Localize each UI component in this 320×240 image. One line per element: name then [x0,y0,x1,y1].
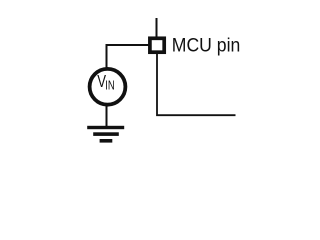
svg-text:IN: IN [105,78,115,92]
svg-text:MCU pin: MCU pin [172,36,241,57]
